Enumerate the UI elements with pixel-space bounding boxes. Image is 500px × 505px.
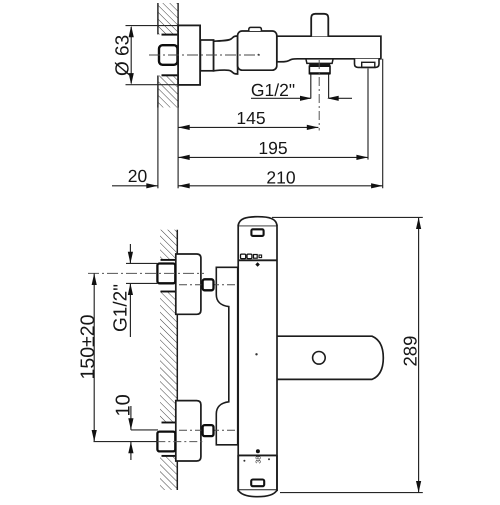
tab on block (top view) — [249, 27, 262, 31]
dimension G1/2 (side view) — [129, 244, 131, 263]
outlet flange under bar (top view) — [306, 59, 333, 64]
outlet pipe sides (top view) — [310, 74, 312, 98]
spout arm (side view) — [277, 336, 383, 379]
centerline bottom body inlet (side view) — [179, 429, 237, 431]
svg-text:38: 38 — [256, 456, 263, 464]
dimension dia63 line — [130, 27, 132, 83]
column cap dome — [238, 217, 277, 226]
dimension 289 extension lines — [272, 216, 423, 218]
centerline top connection (side view) — [88, 272, 204, 274]
svg-text:150±20: 150±20 — [77, 314, 99, 379]
svg-text:145: 145 — [236, 108, 265, 128]
dot above handle — [256, 449, 260, 453]
top bracket escutcheon (side view) — [176, 254, 201, 314]
bottom union nut (side view) — [157, 432, 175, 452]
dimension G1/2 (side view) extension lines — [126, 262, 157, 264]
handshower holder at end (top view) — [355, 59, 380, 68]
extension line bottom connection (150 dim) — [94, 441, 158, 443]
center dot on block — [258, 54, 260, 56]
outlet centerline (top view) — [318, 60, 320, 131]
svg-text:G1/2": G1/2" — [111, 284, 132, 332]
top inlet square (side view) — [203, 279, 214, 290]
wall hole top (side view) — [156, 260, 177, 292]
top union nut (side view) — [157, 264, 175, 284]
svg-text:20: 20 — [128, 166, 148, 186]
svg-text:10: 10 — [113, 394, 135, 416]
38 mark — [243, 460, 245, 462]
neck cylinder (top view) — [200, 40, 213, 71]
extension line for 195 — [367, 69, 369, 160]
buttons row — [241, 254, 246, 259]
cartridge block (top view) — [238, 31, 277, 70]
outlet dark ring band (top view) — [309, 63, 330, 66]
diverter knob (top view) — [311, 14, 328, 37]
handle button — [251, 480, 264, 487]
supply pipe in wall (top view) — [159, 45, 178, 65]
svg-text:195: 195 — [258, 138, 287, 158]
wall (top view, hatched) — [158, 3, 179, 108]
wall hole (top view) — [156, 34, 178, 75]
wall hole bottom (side view) — [156, 422, 177, 456]
centerline (top view) — [149, 54, 262, 56]
extension lines for dia 63 — [126, 25, 179, 27]
display window — [251, 229, 263, 236]
separator line on column — [238, 259, 277, 261]
temperature handle section (side view) — [238, 455, 277, 490]
bottom inlet square (side view) — [203, 425, 214, 436]
body bar (top view) — [277, 36, 381, 62]
escutcheon flange (top view, 063) — [178, 25, 200, 85]
svg-text:289: 289 — [399, 336, 420, 367]
extension line for 210 — [382, 59, 384, 189]
dimension 289 — [418, 217, 420, 492]
small diamond marker — [255, 262, 260, 267]
dot on column — [255, 353, 257, 355]
dimension 150+-20 — [93, 273, 95, 441]
svg-text:Ø 63: Ø 63 — [112, 35, 133, 76]
dimension 10 extension line — [131, 429, 158, 431]
svg-text:G1/2": G1/2" — [251, 80, 295, 100]
svg-text:210: 210 — [266, 167, 295, 187]
chassis between brackets (side view) — [216, 267, 237, 445]
wall extension lines below top view — [157, 105, 159, 188]
centerline bottom connection (side view) — [157, 441, 204, 443]
second cylinder (top view) — [214, 36, 238, 74]
wall (side view, hatched) — [160, 230, 177, 490]
bottom bracket escutcheon (side view) — [176, 401, 201, 461]
dimension 10 — [130, 406, 132, 430]
diverter circle on arm — [313, 352, 326, 365]
handle separator line — [238, 454, 277, 456]
centerline top body inlet (side view) — [179, 284, 237, 286]
handle bottom cap arc — [238, 490, 277, 497]
outlet ring body (top view) — [309, 66, 330, 73]
main column (side view) — [238, 226, 277, 456]
